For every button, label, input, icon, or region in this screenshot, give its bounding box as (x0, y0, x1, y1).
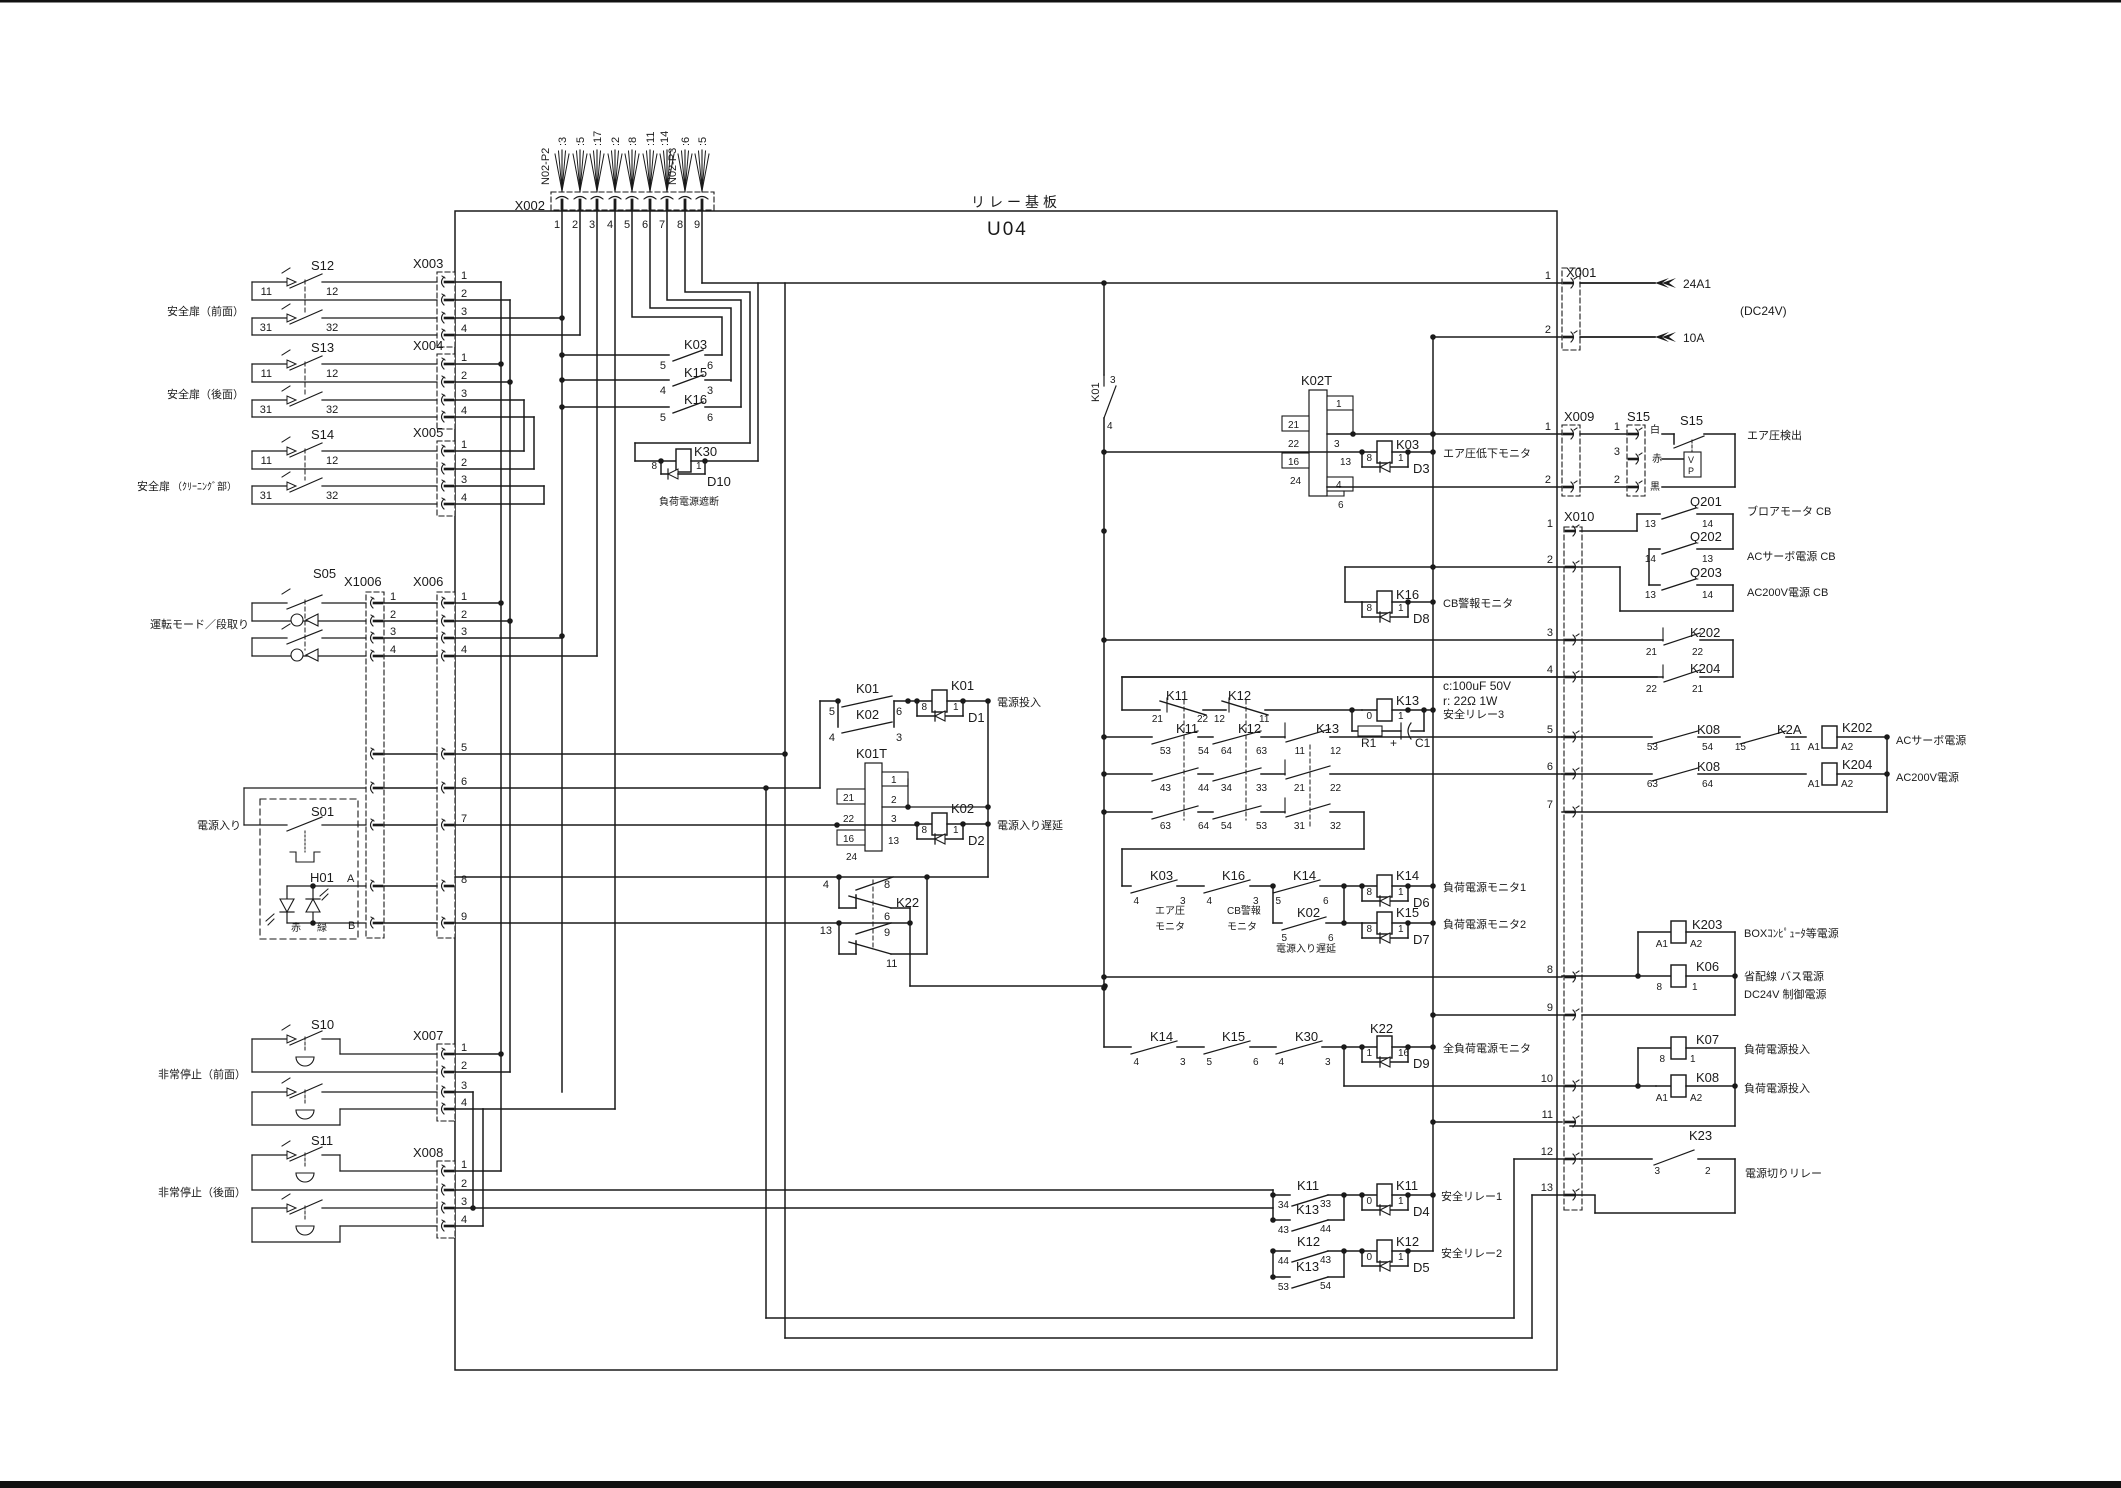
svg-text:21: 21 (843, 793, 855, 804)
svg-text:リレー基板: リレー基板 (971, 194, 1061, 210)
svg-text:1: 1 (461, 270, 467, 282)
svg-text:N02-P3: N02-P3 (667, 148, 679, 185)
svg-text:S14: S14 (311, 427, 334, 442)
svg-text:4: 4 (461, 492, 467, 504)
svg-text:1: 1 (891, 775, 897, 786)
svg-text:11: 11 (261, 455, 272, 467)
contact K03 5-6 (562, 337, 722, 372)
svg-text:X003: X003 (413, 256, 443, 271)
svg-text:8: 8 (677, 219, 683, 231)
svg-text:22: 22 (1646, 684, 1658, 695)
svg-text:64: 64 (1702, 779, 1714, 790)
connector X006 (413, 574, 467, 938)
svg-text:Q202: Q202 (1690, 529, 1722, 544)
svg-text:赤: 赤 (291, 922, 301, 934)
svg-text:3: 3 (461, 306, 467, 318)
svg-text:44: 44 (1198, 783, 1210, 794)
net label 電源入り遅延 (997, 818, 1063, 832)
svg-text:53: 53 (1278, 1282, 1290, 1293)
connector X1006 (344, 574, 396, 938)
svg-text:13: 13 (1645, 590, 1657, 601)
svg-text:X1006: X1006 (344, 574, 382, 589)
svg-text:1: 1 (1398, 1196, 1404, 1207)
svg-text:K02: K02 (1297, 905, 1320, 920)
svg-text:Q201: Q201 (1690, 494, 1722, 509)
svg-text:4: 4 (1278, 1057, 1284, 1068)
svg-text:D1: D1 (968, 710, 985, 725)
svg-text:4: 4 (1336, 480, 1342, 491)
svg-text::6: :6 (680, 137, 692, 146)
svg-text:電源入り遅延: 電源入り遅延 (1276, 942, 1336, 955)
svg-text:0: 0 (1366, 711, 1372, 722)
svg-text:8: 8 (884, 879, 890, 891)
svg-text:X005: X005 (413, 425, 443, 440)
svg-text:3: 3 (1614, 446, 1620, 458)
svg-text:12: 12 (1214, 714, 1226, 725)
svg-text:24: 24 (846, 852, 858, 863)
wire X006-9 row (455, 920, 910, 926)
svg-text:11: 11 (261, 286, 272, 298)
svg-text:白: 白 (1650, 423, 1660, 436)
svg-text:ブロアモータ CB: ブロアモータ CB (1747, 504, 1831, 518)
wire X006-6 row to K01 contact (455, 701, 836, 791)
svg-text:5: 5 (461, 742, 467, 754)
switch S12 safety door front (167, 258, 437, 335)
wire X002-6 column to K15-3 (650, 209, 731, 381)
svg-text:3: 3 (1180, 1057, 1186, 1068)
svg-text:X007: X007 (413, 1028, 443, 1043)
svg-text:K12: K12 (1228, 688, 1251, 703)
svg-text:21: 21 (1646, 647, 1658, 658)
wire X002-2 column (579, 209, 581, 335)
svg-text:1: 1 (461, 1042, 467, 1054)
svg-text:黒: 黒 (1650, 481, 1660, 493)
svg-text:2: 2 (390, 609, 396, 621)
svg-text:16: 16 (1288, 457, 1300, 468)
svg-text:負荷電源投入: 負荷電源投入 (1744, 1081, 1810, 1095)
wire bus x1433 (1430, 337, 1436, 1251)
wire X006-1 row (455, 602, 501, 604)
wire rail x766 down (766, 788, 1514, 1318)
wire K02T pin4 to X009-2 (1327, 486, 1562, 488)
svg-text:K08: K08 (1696, 1070, 1719, 1085)
svg-text:5: 5 (1547, 724, 1553, 736)
svg-text:X010: X010 (1564, 509, 1594, 524)
svg-text:D9: D9 (1413, 1056, 1430, 1071)
svg-text:A1: A1 (1656, 939, 1669, 950)
connector X007 (413, 1028, 467, 1121)
svg-text:K06: K06 (1696, 959, 1719, 974)
svg-text:1: 1 (461, 1159, 467, 1171)
svg-text:2: 2 (1545, 474, 1551, 486)
svg-text:1: 1 (390, 591, 396, 603)
svg-text:8: 8 (1656, 982, 1662, 993)
relay K06 coil (1562, 932, 1738, 1015)
svg-text:4: 4 (1133, 896, 1139, 907)
svg-text::11: :11 (645, 132, 657, 146)
svg-text:ACサーボ電源: ACサーボ電源 (1896, 733, 1966, 747)
svg-text:負荷電源投入: 負荷電源投入 (1744, 1042, 1810, 1056)
svg-text:4: 4 (1133, 1057, 1139, 1068)
svg-text:43: 43 (1160, 783, 1172, 794)
svg-text:43: 43 (1278, 1225, 1290, 1236)
svg-text:K11: K11 (1176, 721, 1198, 736)
svg-text:K14: K14 (1150, 1029, 1173, 1044)
net label ブロアモータ CB (1747, 504, 1831, 518)
svg-text:4: 4 (461, 405, 467, 417)
svg-text:3: 3 (1547, 627, 1553, 639)
svg-text:3: 3 (461, 1196, 467, 1208)
svg-text:3: 3 (1654, 1166, 1660, 1177)
connector X010 (1541, 509, 1595, 1210)
contact K08 + coil K204 (1562, 757, 1890, 790)
svg-text:D7: D7 (1413, 932, 1430, 947)
wire X006-7 row (455, 822, 917, 828)
wire long row to K13 43-44 (470, 1205, 1273, 1211)
svg-text:4: 4 (461, 1097, 467, 1109)
svg-text:3: 3 (1110, 375, 1116, 386)
board ref U04 (987, 219, 1028, 240)
svg-text:全負荷電源モニタ: 全負荷電源モニタ (1443, 1041, 1531, 1055)
svg-text:安全リレー1: 安全リレー1 (1441, 1189, 1502, 1203)
wire X007-3 to X008-3 (455, 1092, 473, 1208)
svg-text:1: 1 (1690, 1054, 1696, 1065)
relay K01 coil with diode D1 (914, 678, 991, 725)
svg-text:+: + (1390, 736, 1397, 750)
svg-text:54: 54 (1320, 1281, 1332, 1292)
svg-text:7: 7 (659, 219, 665, 231)
svg-text:2: 2 (1547, 554, 1553, 566)
wire K03 out (1408, 451, 1433, 453)
wire X010-8 row left (1104, 976, 1562, 978)
wire D9 return to X010-10 (1344, 1047, 1656, 1089)
relay K203 coil (1635, 917, 1735, 979)
board title リレー基板 (971, 194, 1061, 210)
relay K14 coil with diode D6 (1344, 868, 1433, 910)
svg-text:安全リレー3: 安全リレー3 (1443, 707, 1504, 721)
svg-text:K02: K02 (856, 707, 879, 722)
harness label N02-P3 (667, 148, 679, 185)
svg-text:K11: K11 (1396, 1178, 1418, 1193)
svg-text:非常停止（後面）: 非常停止（後面） (158, 1185, 246, 1199)
relay K16 coil with diode D8 (1362, 587, 1433, 626)
svg-text:1: 1 (1398, 924, 1404, 935)
svg-text:54: 54 (1198, 746, 1210, 757)
wire bus x1104 (1101, 283, 1107, 1047)
svg-text:22: 22 (843, 814, 855, 825)
svg-text:K23: K23 (1689, 1128, 1712, 1143)
svg-text:省配線 バス電源: 省配線 バス電源 (1744, 969, 1824, 983)
svg-text:6: 6 (707, 360, 713, 372)
svg-text:10: 10 (1541, 1073, 1553, 1085)
svg-text::2: :2 (610, 137, 622, 146)
svg-text:K13: K13 (1316, 721, 1339, 736)
relay K13 coil safety relay 3 (1352, 693, 1433, 722)
contact K15 4-3 (562, 365, 731, 397)
contact K01 5-6 (829, 681, 917, 718)
svg-text:X002: X002 (515, 198, 545, 213)
svg-text:4: 4 (390, 644, 396, 656)
svg-text:3: 3 (461, 1080, 467, 1092)
wire H01 B row (384, 922, 437, 924)
wire X003-3 to X002-1 column (455, 315, 565, 321)
svg-text:6: 6 (642, 219, 648, 231)
switch S14 safety door cleaning (137, 427, 437, 504)
contact K23 (1580, 1128, 1735, 1213)
svg-text:8: 8 (1366, 603, 1372, 614)
svg-text:A2: A2 (1690, 1093, 1703, 1104)
svg-text:11: 11 (886, 958, 897, 970)
svg-text:22: 22 (1692, 647, 1704, 658)
svg-text:7: 7 (461, 813, 467, 825)
svg-text:非常停止（前面）: 非常停止（前面） (158, 1067, 246, 1081)
svg-text:2: 2 (461, 1060, 467, 1072)
svg-text:44: 44 (1320, 1224, 1332, 1235)
svg-text:K14: K14 (1293, 868, 1316, 883)
wire X004-3 to X005-1 (455, 400, 524, 451)
svg-text:3: 3 (707, 385, 713, 397)
net label 安全リレー1 (1441, 1189, 1502, 1203)
svg-text:K22: K22 (896, 895, 919, 910)
svg-text:K08: K08 (1697, 759, 1720, 774)
svg-text:S11: S11 (311, 1133, 333, 1148)
wire X002-9 column to 24A1 rail (701, 209, 703, 283)
net label ACサーボ電源 CB (1747, 549, 1836, 563)
svg-text:34: 34 (1278, 1200, 1290, 1211)
label air/CB monitor (1155, 904, 1261, 933)
contact K02 load monitor2 (1273, 886, 1347, 955)
net label 負荷電源投入1 (1744, 1042, 1810, 1056)
svg-text:12: 12 (326, 368, 338, 380)
svg-text:6: 6 (1547, 761, 1553, 773)
net label 電源投入 (997, 695, 1041, 709)
svg-text:DC24V 制御電源: DC24V 制御電源 (1744, 987, 1827, 1001)
wire air monitor row (1104, 451, 1362, 453)
wire X010-11 row (1433, 1121, 1562, 1123)
contacts K12/K13 safety relay2 (1270, 1234, 1347, 1293)
svg-text:電源入り遅延: 電源入り遅延 (997, 818, 1063, 832)
svg-text:3: 3 (891, 814, 897, 825)
svg-text:11: 11 (1295, 746, 1306, 757)
svg-text:電源入り: 電源入り (197, 818, 241, 832)
svg-text:5: 5 (1206, 1057, 1212, 1068)
svg-text:K01: K01 (951, 678, 974, 693)
svg-text:D8: D8 (1413, 611, 1430, 626)
svg-text:6: 6 (1323, 896, 1329, 907)
connector X001 (1545, 265, 1597, 350)
connector X003 (413, 256, 467, 347)
svg-text:1: 1 (461, 591, 467, 603)
svg-text:4: 4 (823, 879, 829, 891)
svg-text:Q203: Q203 (1690, 565, 1722, 580)
terminal 10A (1580, 331, 1704, 345)
svg-text::14: :14 (659, 131, 671, 146)
svg-text:2: 2 (461, 370, 467, 382)
svg-text:K202: K202 (1842, 720, 1872, 735)
svg-text:5: 5 (1281, 933, 1287, 944)
net label 負荷電源モニタ2 (1443, 917, 1526, 931)
svg-text:8: 8 (1366, 924, 1372, 935)
timer relay K02T (1282, 373, 1356, 511)
timer relay K01T (837, 746, 991, 863)
svg-text:K30: K30 (1295, 1029, 1318, 1044)
svg-text:4: 4 (660, 385, 666, 397)
svg-text:8: 8 (461, 874, 467, 886)
wire rail x785 down (785, 283, 1532, 1338)
svg-text:9: 9 (694, 219, 700, 231)
switch S10 emergency stop front (158, 1017, 437, 1125)
svg-text:1: 1 (1692, 982, 1698, 993)
svg-text:K30: K30 (694, 444, 717, 459)
svg-text:2: 2 (461, 609, 467, 621)
net label エア圧低下モニタ (1443, 447, 1531, 460)
svg-text:21: 21 (1152, 714, 1164, 725)
svg-text:63: 63 (1160, 821, 1172, 832)
svg-text:N02-P2: N02-P2 (540, 148, 552, 185)
switch S13 safety door rear (167, 340, 437, 417)
net label 負荷電源投入2 (1744, 1081, 1810, 1095)
svg-text:BOXｺﾝﾋﾟｭｰﾀ等電源: BOXｺﾝﾋﾟｭｰﾀ等電源 (1744, 926, 1839, 940)
wire X003-4 to X002-2 column (455, 334, 580, 336)
contacts K11/K12 safety relay 3 row (1122, 688, 1355, 820)
net label ACサーボ電源 (1896, 733, 1966, 747)
wire X004-4 to X005-2 (455, 417, 534, 469)
svg-text:4: 4 (607, 219, 613, 231)
svg-text:22: 22 (1288, 439, 1300, 450)
net label 安全リレー2 (1441, 1246, 1502, 1260)
svg-text:14: 14 (1702, 590, 1714, 601)
wire X006-5 row (455, 751, 788, 757)
svg-text:33: 33 (1256, 783, 1268, 794)
svg-text:K11: K11 (1297, 1178, 1319, 1193)
contact K02 4-3 (829, 701, 902, 744)
contact K202 21-22 (1104, 625, 1733, 677)
wire X010-9 row (1434, 1014, 1570, 1016)
contacts K03/K16/K14 load monitor1 (1122, 868, 1347, 907)
contact K01 3-4 on bus (1090, 375, 1116, 432)
svg-text:53: 53 (1256, 821, 1268, 832)
svg-text:3: 3 (896, 732, 902, 744)
svg-text:2: 2 (1545, 324, 1551, 336)
svg-text:1: 1 (696, 461, 702, 472)
svg-text:1: 1 (953, 702, 959, 713)
relay K15 coil with diode D7 (1344, 905, 1433, 947)
svg-text:32: 32 (326, 490, 338, 502)
svg-text:R1: R1 (1361, 736, 1377, 750)
svg-text:K14: K14 (1396, 868, 1419, 883)
svg-text:電源投入: 電源投入 (997, 695, 1041, 709)
net label CB警報モニタ (1443, 596, 1513, 610)
svg-text:13: 13 (1340, 457, 1352, 468)
svg-text:3: 3 (1325, 1057, 1331, 1068)
svg-text:4: 4 (461, 1214, 467, 1226)
svg-text:13: 13 (1541, 1182, 1553, 1194)
svg-text:22: 22 (1197, 714, 1209, 725)
svg-text::5: :5 (575, 137, 587, 146)
svg-text:2: 2 (461, 288, 467, 300)
svg-text:32: 32 (326, 404, 338, 416)
svg-text::17: :17 (592, 131, 604, 146)
connector X002 label (515, 198, 545, 213)
svg-text:CB警報: CB警報 (1227, 904, 1261, 917)
svg-text:1: 1 (1398, 1252, 1404, 1263)
svg-text:K03: K03 (1396, 437, 1419, 452)
svg-text:12: 12 (326, 286, 338, 298)
svg-text:A: A (347, 873, 355, 885)
svg-text:K01T: K01T (856, 746, 887, 761)
svg-text:A2: A2 (1841, 779, 1854, 790)
svg-text:4: 4 (1206, 896, 1212, 907)
svg-text:31: 31 (260, 404, 272, 416)
svg-text:6: 6 (896, 706, 902, 718)
relay K08 coil (1570, 1048, 1738, 1126)
svg-text:D5: D5 (1413, 1260, 1430, 1275)
svg-text:4: 4 (1107, 421, 1113, 432)
contacts K08/K2A + coil K202 (1562, 720, 1890, 753)
contacts K11/K13 safety relay1 (1270, 1178, 1347, 1236)
svg-text:1: 1 (461, 352, 467, 364)
wire X003-2 chain (455, 300, 513, 1072)
svg-text:K01: K01 (1090, 382, 1102, 402)
svg-text:2: 2 (1614, 474, 1620, 486)
mech link K13 column (1309, 745, 1311, 828)
net label AC200V電源 CB (1747, 585, 1828, 599)
svg-text:K2A: K2A (1777, 722, 1802, 737)
svg-text:X004: X004 (413, 338, 443, 353)
svg-text:K02T: K02T (1301, 373, 1332, 388)
svg-text:V: V (1688, 455, 1694, 465)
svg-text:X006: X006 (413, 574, 443, 589)
wire 24A1 rail (702, 280, 1655, 286)
svg-text:63: 63 (1647, 779, 1659, 790)
switch S05 operation mode (150, 566, 366, 661)
svg-text:K204: K204 (1842, 757, 1872, 772)
svg-text:K16: K16 (684, 392, 707, 407)
harness label N02-P2 (540, 148, 552, 185)
svg-text:X009: X009 (1564, 409, 1594, 424)
wire X006-8 row (455, 874, 988, 880)
svg-text:3: 3 (461, 388, 467, 400)
svg-text:運転モード／段取り: 運転モード／段取り (150, 617, 249, 631)
svg-text:K16: K16 (1396, 587, 1419, 602)
svg-text:赤: 赤 (1652, 453, 1662, 465)
svg-text:0: 0 (1366, 1196, 1372, 1207)
svg-text:安全リレー2: 安全リレー2 (1441, 1246, 1502, 1260)
wire X010-13 row (1532, 1194, 1595, 1196)
wire X003-1 to X007/X008 chain (455, 282, 504, 1171)
svg-text:S15: S15 (1627, 409, 1650, 424)
wire X006-2 row (455, 620, 510, 622)
wire X009 to S15 (1580, 434, 1627, 487)
wire X010-7 return (1562, 737, 1887, 812)
svg-text:1: 1 (1398, 711, 1404, 722)
svg-text:15: 15 (1735, 742, 1747, 753)
svg-text:AC200V電源 CB: AC200V電源 CB (1747, 585, 1828, 599)
svg-text:7: 7 (1547, 799, 1553, 811)
svg-text:21: 21 (1692, 684, 1704, 695)
svg-text:K11: K11 (1166, 688, 1188, 703)
wire X002-7 column to K16-6 (667, 209, 741, 407)
svg-text:負荷電源モニタ2: 負荷電源モニタ2 (1443, 917, 1526, 931)
net label 省配線 バス電源 (1744, 969, 1824, 983)
relay K02 coil with diode D2 (914, 801, 991, 848)
border bar top (0, 0, 2121, 3)
svg-text:8: 8 (1366, 453, 1372, 464)
svg-text:11: 11 (261, 368, 272, 380)
relay K07 coil (1638, 1032, 1735, 1086)
svg-text:22: 22 (1330, 783, 1342, 794)
svg-text:1: 1 (953, 825, 959, 836)
